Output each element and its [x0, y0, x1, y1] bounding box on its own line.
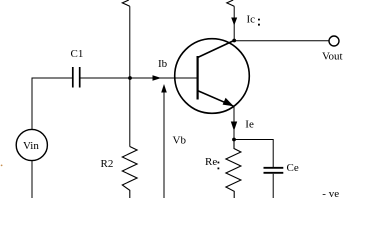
node B junction dot — [128, 76, 132, 80]
svg-text:C1: C1 — [71, 48, 84, 60]
wire: below Vin to bottom edge — [31, 161, 33, 198]
wire: C1 to transistor base bar — [80, 77, 198, 79]
resistor Re — [226, 140, 241, 199]
arrow Ie (downward on emitter wire) — [231, 122, 237, 132]
arrow Ic (downward on collector rail) — [231, 18, 237, 26]
wire: vertical rail x=130 from R1 down through base node to R2 — [129, 6, 131, 146]
node E junction dot — [232, 138, 236, 142]
stray scan dot — [1, 165, 3, 167]
resistor R2 — [122, 147, 137, 199]
svg-text:R2: R2 — [101, 158, 114, 170]
svg-text:Ic: Ic — [247, 14, 256, 26]
arrow Vb (vertical measurement arrow pointing up) — [161, 84, 167, 198]
terminal Vout — [329, 36, 339, 46]
svg-text:Re: Re — [205, 156, 217, 168]
resistor R1 (partial, cut off at top) — [122, 0, 130, 6]
svg-text:Vb: Vb — [173, 135, 187, 147]
wire: emitter down from transistor — [233, 106, 235, 139]
source Vin — [16, 129, 47, 160]
svg-text:Ce: Ce — [287, 162, 299, 174]
capacitor C1 — [73, 67, 80, 88]
capacitor Ce — [264, 168, 284, 173]
resistor Rc (partial, cut off at top) — [227, 0, 234, 6]
svg-text:Ie: Ie — [245, 118, 254, 130]
svg-text:Vin: Vin — [23, 140, 39, 152]
node C junction dot — [232, 39, 236, 43]
wire: below Ce to bottom edge — [272, 174, 274, 198]
transistor Q1 (NPN) — [175, 39, 250, 114]
wire: input horizontal from left corner to C1 — [32, 78, 73, 130]
svg-text:Vout: Vout — [322, 51, 343, 63]
wire: emitter node to Ce branch — [234, 140, 273, 168]
arrow Ib (rightward on base wire) — [153, 75, 162, 80]
svg-text:- ve: - ve — [322, 188, 339, 198]
wire: collector rail x=234 from Rc down to collector node — [233, 6, 235, 40]
svg-text:Ib: Ib — [158, 58, 168, 70]
wire: collector node to Vout terminal — [234, 40, 329, 42]
